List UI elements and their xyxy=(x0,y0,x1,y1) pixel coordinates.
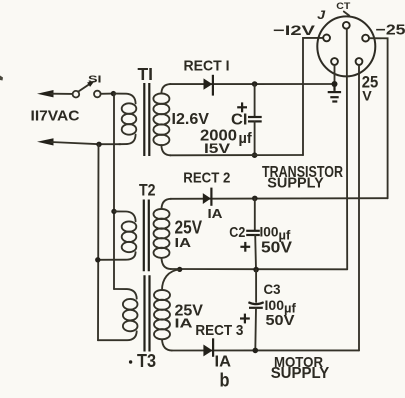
svg-text:SI: SI xyxy=(88,73,102,85)
neutral vertical wire xyxy=(97,144,100,340)
C2 plates xyxy=(246,230,260,232)
wire 25V pin down xyxy=(358,65,360,350)
svg-text:I00: I00 xyxy=(260,224,279,240)
C2 bottom wire xyxy=(254,235,257,270)
svg-text:RECT 2: RECT 2 xyxy=(183,170,230,187)
AC line 2 arrow xyxy=(37,138,54,145)
CT leader tick xyxy=(344,12,350,16)
junction C3 bottom xyxy=(253,348,259,354)
svg-text:50V: 50V xyxy=(261,239,293,256)
C1 bottom wire xyxy=(254,121,256,155)
capacitor C1 top wire xyxy=(254,84,256,116)
T3 secondary coil xyxy=(154,290,170,300)
junction T3 top lead on CT rail xyxy=(177,267,182,272)
junction neutral xyxy=(96,142,101,147)
wire CT pin down xyxy=(346,29,348,269)
AC line 1 arrow xyxy=(37,90,54,97)
svg-text:J: J xyxy=(317,10,326,22)
T2 primary top lead xyxy=(114,211,136,221)
T1 secondary top lead xyxy=(161,84,170,93)
T2 secondary bottom lead xyxy=(162,258,172,269)
wire center-tap rail xyxy=(171,268,348,270)
svg-text:II7VAC: II7VAC xyxy=(31,108,80,125)
wire AC line 2 xyxy=(51,142,121,144)
T1 primary top lead xyxy=(113,94,135,104)
T3 primary coil xyxy=(123,299,138,310)
T1 secondary coil xyxy=(153,93,169,104)
T3 primary top lead xyxy=(114,289,137,299)
junction hot/T2 xyxy=(111,209,116,214)
junction C2 top xyxy=(252,196,258,202)
svg-text:T2: T2 xyxy=(139,181,156,200)
T2 secondary top lead xyxy=(162,199,172,209)
hot vertical wire xyxy=(113,94,115,289)
RECT2 cathode bar xyxy=(210,188,212,206)
junction ground node xyxy=(332,81,338,87)
junction C2/C3 on CT rail xyxy=(253,267,259,273)
pin -25V (right) xyxy=(362,35,369,42)
svg-text:IA: IA xyxy=(208,207,223,221)
svg-text:µf: µf xyxy=(239,131,252,147)
svg-text:50V: 50V xyxy=(266,312,295,329)
svg-text:IA: IA xyxy=(175,316,194,331)
svg-text:b: b xyxy=(220,369,230,391)
wire -12V rail (T1 bottom rail) xyxy=(170,154,303,156)
junction neutral/T2 xyxy=(95,257,100,262)
pin GND (bottom left) xyxy=(331,58,338,65)
svg-text:C2: C2 xyxy=(229,225,245,241)
svg-text:SUPPLY: SUPPLY xyxy=(267,176,324,192)
svg-text:SUPPLY: SUPPLY xyxy=(271,365,330,382)
wire rail RECT2 output (transistor supply rail) xyxy=(171,197,388,200)
junction switch/T1/hot xyxy=(111,91,116,96)
RECT3 cathode bar xyxy=(212,338,214,357)
junction C1 top xyxy=(252,81,258,87)
C1 plates xyxy=(248,116,262,118)
ground symbol xyxy=(328,84,341,102)
svg-text:RECT 3: RECT 3 xyxy=(195,322,243,339)
svg-text:IA: IA xyxy=(215,354,232,371)
wire GND pin down xyxy=(334,65,336,84)
pin 25V (bottom right) xyxy=(356,58,363,65)
svg-text:I5V: I5V xyxy=(204,140,231,156)
rectifier RECT3 diode xyxy=(203,345,212,357)
svg-text:V: V xyxy=(362,87,372,103)
C3 polarity plus xyxy=(240,314,250,324)
svg-text:−25: −25 xyxy=(376,23,405,39)
capacitor C3 top wire xyxy=(255,270,257,302)
T3 primary bottom lead xyxy=(98,331,137,340)
junction C1 bottom xyxy=(252,152,258,158)
T1 primary bottom lead xyxy=(119,135,136,145)
connector J shell xyxy=(317,16,375,76)
wire switch to node xyxy=(101,93,114,95)
pin -12V (left) xyxy=(323,35,330,42)
transformer T2 core xyxy=(143,200,145,272)
wire -12V riser to connector pin xyxy=(303,38,323,155)
svg-text:CT: CT xyxy=(336,1,350,12)
capacitor C2 top wire xyxy=(254,198,256,230)
switch S1 lever arrowhead xyxy=(87,81,95,87)
T3 secondary top lead xyxy=(162,270,180,291)
C2 polarity plus xyxy=(240,242,250,252)
svg-text:CI: CI xyxy=(231,112,248,129)
svg-text:T3: T3 xyxy=(137,351,156,371)
svg-text:C3: C3 xyxy=(264,281,281,297)
wire -25V pin right xyxy=(369,38,387,198)
rectifier RECT2 diode xyxy=(203,193,211,204)
T2 primary coil xyxy=(122,221,137,231)
svg-text:I00: I00 xyxy=(265,297,285,313)
C3 plates xyxy=(248,302,263,304)
T1 secondary bottom lead xyxy=(161,145,170,155)
T1 primary coil xyxy=(122,103,137,114)
T2 primary bottom lead xyxy=(98,252,136,260)
switch S1 left contact xyxy=(73,91,80,98)
RECT1 cathode bar xyxy=(212,75,214,96)
svg-text:−I2V: −I2V xyxy=(273,22,316,38)
T2 secondary coil xyxy=(154,209,170,219)
label T3 xyxy=(129,360,132,363)
pin CT (top) xyxy=(343,22,350,29)
stray ink fragment at left edge xyxy=(0,76,3,81)
wire rail RECT1 output (top rail) xyxy=(170,83,335,85)
C3 bottom wire xyxy=(254,308,257,351)
T3 secondary bottom lead xyxy=(162,339,172,350)
transformer T1 core xyxy=(143,83,145,156)
wire rail RECT3 output (motor supply rail) xyxy=(172,349,360,351)
wire AC line 1 to switch xyxy=(51,93,72,95)
svg-text:IA: IA xyxy=(175,235,192,250)
switch S1 right contact xyxy=(94,91,101,98)
transformer T3 core xyxy=(143,275,145,351)
svg-text:I2.6V: I2.6V xyxy=(172,111,210,128)
C1 polarity plus xyxy=(237,102,247,112)
svg-text:TI: TI xyxy=(138,64,154,84)
switch S1 lever xyxy=(79,85,89,92)
rectifier RECT1 diode xyxy=(204,78,213,89)
svg-text:RECT I: RECT I xyxy=(184,57,230,74)
